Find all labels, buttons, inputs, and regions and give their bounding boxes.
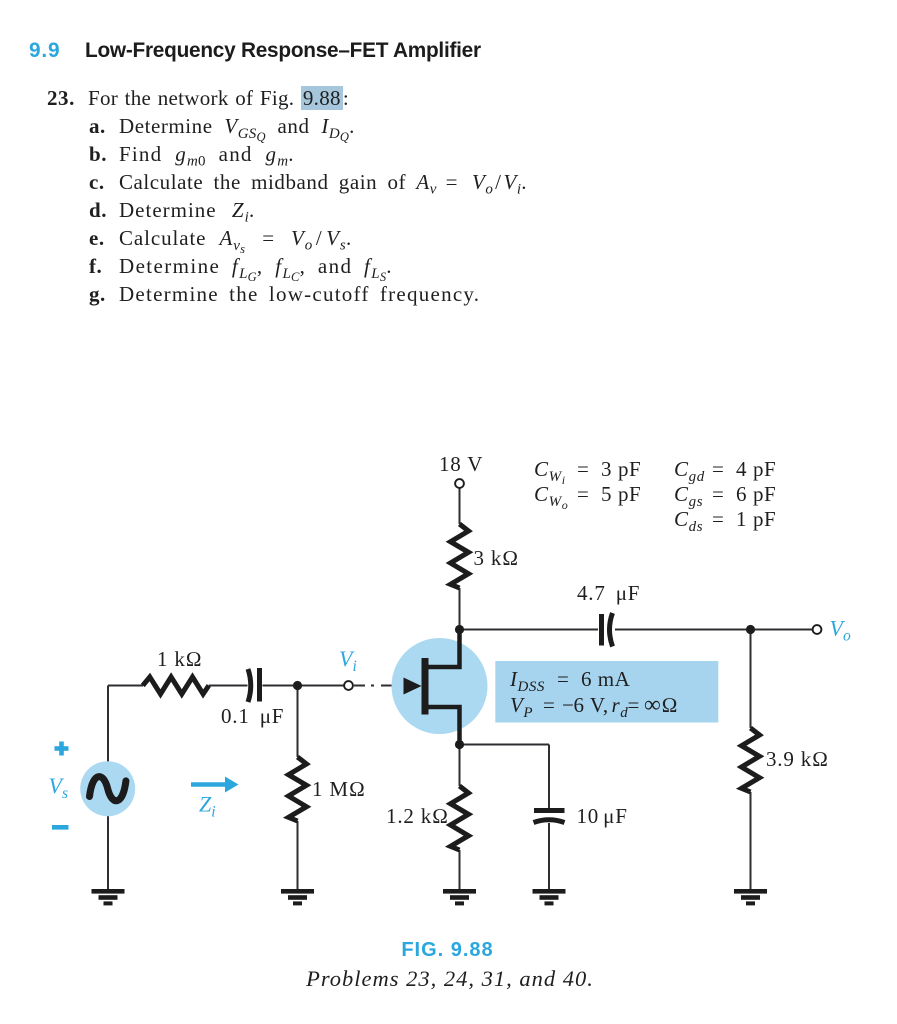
resistor Rsig 1 k-ohm (horizontal)	[143, 677, 209, 694]
Zi input-impedance arrow	[191, 777, 239, 793]
svg-text:Cgs=6 pF: Cgs=6 pF	[674, 482, 776, 510]
terminal: node Vi	[344, 681, 353, 690]
transistor Q1 JFET symbol (gate bar, drain lead, source lead, gate arrow)	[404, 630, 460, 745]
wire 1.2k to ground	[459, 850, 461, 889]
highlighted parameter box (IDSS, VP, rd)	[495, 661, 718, 723]
resistor RS 1.2 k-ohm	[451, 786, 469, 850]
svg-text:Zi: Zi	[199, 792, 216, 821]
transistor Q1 body circle	[392, 638, 488, 734]
svg-text:1 kΩ: 1 kΩ	[157, 647, 203, 671]
svg-text:18 V: 18 V	[439, 452, 483, 476]
wire 10uF top	[548, 745, 550, 809]
node: drain junction	[455, 625, 464, 634]
wire source node to 1.2k	[459, 745, 461, 787]
ground (below 10 uF)	[533, 889, 566, 905]
polarity plus sign of Vs	[55, 742, 69, 756]
wire source node to 10uF branch	[460, 744, 550, 746]
caption	[400, 939, 495, 962]
resistor RD 3 k-ohm	[451, 524, 469, 588]
svg-text:Vo: Vo	[830, 616, 851, 645]
svg-text:3.9 kΩ: 3.9 kΩ	[766, 747, 829, 771]
cyan node labels	[49, 616, 851, 821]
svg-text:0.1 μF: 0.1 μF	[221, 704, 284, 728]
wire (dashed) Vi terminal to gate arrow	[354, 685, 402, 687]
wire 10uF bottom to ground	[548, 823, 550, 889]
ac source Vs sine symbol	[90, 777, 126, 801]
wire 18V to 3k	[459, 488, 461, 524]
terminal: node Vo	[813, 625, 822, 634]
resistor RL 3.9 k-ohm	[742, 728, 760, 792]
output wire drain to cap	[460, 629, 599, 631]
capacitor CC 4.7 uF	[602, 613, 613, 647]
section header	[29, 39, 60, 63]
wiring capacitance labels	[534, 457, 776, 535]
ground (below 1.2 k-ohm)	[443, 889, 476, 905]
svg-text:1.2 kΩ: 1.2 kΩ	[386, 804, 449, 828]
node: output junction at 3.9 k-ohm	[746, 625, 755, 634]
wire 3k to drain node	[459, 588, 461, 630]
resistor RG 1 M-ohm	[289, 757, 307, 821]
wire Vo junction to 3.9k	[750, 630, 752, 729]
wire source bottom to ground	[107, 816, 109, 889]
svg-text:Vi: Vi	[339, 646, 357, 675]
wire 1M bottom to ground	[297, 821, 299, 889]
capacitor CG 0.1 uF	[248, 668, 260, 702]
node: source junction	[455, 740, 464, 749]
IDSS box text	[509, 667, 678, 721]
ground (below 3.9 k-ohm)	[734, 889, 767, 905]
wire 1M top	[297, 686, 299, 758]
ground (below 1 M-ohm)	[281, 889, 314, 905]
wire source to 1k resistor	[108, 685, 143, 687]
svg-text:CWo=5 pF: CWo=5 pF	[534, 482, 641, 512]
ac source Vs circle	[80, 761, 135, 816]
svg-text:10 μF: 10 μF	[577, 804, 628, 828]
problem 23	[47, 88, 75, 109]
svg-text:Vs: Vs	[49, 773, 69, 802]
polarity minus sign of Vs	[52, 825, 69, 830]
svg-text:Cds=1 pF: Cds=1 pF	[674, 507, 776, 535]
output wire cap to Vo	[615, 629, 813, 631]
node: gate junction (1 M-ohm tap)	[293, 681, 302, 690]
svg-text:3 kΩ: 3 kΩ	[474, 546, 520, 570]
wire 1k resistor to cap	[209, 685, 248, 687]
wire source top vertical	[107, 686, 109, 762]
wire cap to junction and Vi	[263, 685, 345, 687]
svg-text:1 MΩ: 1 MΩ	[312, 777, 366, 801]
ground (below source Vs)	[92, 889, 125, 905]
terminal: 18 V supply	[455, 479, 464, 488]
svg-text:Cgd=4 pF: Cgd=4 pF	[674, 457, 776, 485]
svg-text:4.7 μF: 4.7 μF	[577, 581, 640, 605]
wire 3.9k to ground	[750, 792, 752, 889]
capacitor CS 10 uF	[534, 811, 565, 823]
